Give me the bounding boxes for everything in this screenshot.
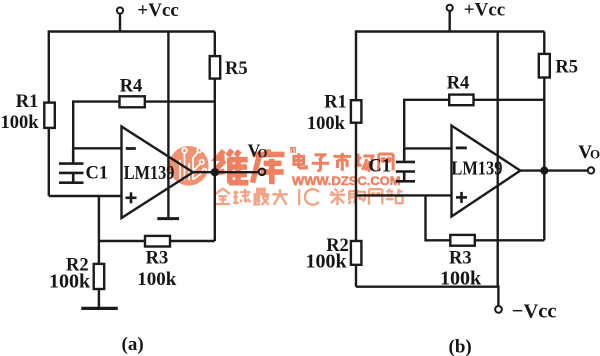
wire: op-amp supply vertical A [167, 32, 169, 218]
node output junction (b) [540, 167, 548, 175]
wire: R5 / output vertical B [543, 32, 545, 241]
logo circle [169, 146, 209, 186]
resistor R5 (b) [539, 54, 550, 78]
Vo terminal B [588, 167, 594, 173]
op-amp U2 triangle [452, 126, 521, 217]
svg-text:R1: R1 [16, 92, 39, 112]
wire: R4 wire B [404, 100, 544, 149]
svg-text:C1: C1 [368, 157, 391, 177]
svg-text:TM: TM [290, 146, 297, 155]
wire: inverting input wire A [73, 147, 121, 149]
svg-text:C1: C1 [86, 164, 109, 184]
resistor R5 (a) [210, 56, 221, 79]
svg-text:R5: R5 [555, 57, 578, 77]
resistor R3 (a) [145, 236, 170, 247]
svg-text:+Vcc: +Vcc [464, 0, 505, 20]
wire: R4 wire A [73, 102, 215, 149]
wire: R3 branch B [426, 195, 545, 240]
op-amp U1 plus [126, 192, 137, 203]
wire: + input wire B [356, 194, 452, 196]
svg-text:R1: R1 [324, 92, 347, 112]
op-amp U1 triangle [122, 127, 194, 219]
wire: bottom supply wire B [356, 287, 498, 306]
wire: output wire A [193, 171, 259, 173]
wire: bottom feedback wire A [99, 240, 215, 242]
resistor R4 (b) [449, 95, 473, 106]
svg-text:R3: R3 [146, 249, 169, 269]
Vo terminal A [259, 169, 266, 176]
resistor R3 (b) [450, 235, 475, 246]
svg-text:100k: 100k [306, 250, 348, 272]
+Vcc terminal B [447, 5, 453, 11]
svg-text:R4: R4 [120, 77, 143, 97]
wire: + input wire A [49, 195, 122, 197]
svg-text:100k: 100k [440, 268, 482, 290]
wire: +Vcc stub A [119, 14, 121, 32]
svg-text:100k: 100k [1, 113, 40, 133]
svg-text:+Vcc: +Vcc [137, 0, 178, 21]
svg-text:(a): (a) [122, 334, 144, 355]
svg-text:LM139: LM139 [124, 162, 175, 184]
wire: +Vcc stub B [449, 11, 451, 31]
+Vcc terminal A [117, 7, 123, 13]
resistor R1 (b) [351, 100, 362, 123]
capacitor C1 (b) [396, 148, 415, 181]
resistor R2 (a) [94, 264, 105, 289]
svg-text:R3: R3 [449, 248, 472, 268]
全球最大IC采购网站 row [216, 188, 403, 205]
电子市场网 row [294, 153, 393, 172]
wire: top rail A [49, 32, 215, 197]
svg-text:100k: 100k [137, 269, 177, 290]
wire: top rail B [356, 32, 544, 287]
svg-text:R5: R5 [225, 59, 248, 79]
big 维库 [215, 149, 285, 184]
resistor R2 (b) [351, 241, 362, 265]
op-amp U2 minus [456, 146, 467, 149]
svg-text:(b): (b) [449, 336, 472, 356]
svg-text:O: O [258, 146, 268, 160]
wire: inverting input wire B [404, 147, 451, 149]
ground (a) R2 ground [81, 307, 118, 310]
svg-text:R4: R4 [447, 74, 470, 94]
svg-text:100k: 100k [49, 271, 91, 293]
ground (a) op-amp V- pin [157, 217, 179, 220]
svg-text:O: O [590, 147, 600, 162]
svg-text:−Vcc: −Vcc [512, 301, 557, 323]
wire: R2 branch vertical A [98, 196, 100, 307]
svg-text:WWW.DZSC.COM: WWW.DZSC.COM [292, 176, 401, 188]
wire: R5 / output vertical A [214, 32, 216, 242]
svg-text:100k: 100k [307, 114, 346, 134]
op-amp U2 plus [456, 192, 467, 203]
wire: output wire B [520, 169, 588, 171]
capacitor C1 (a) [59, 148, 84, 182]
op-amp U1 minus [126, 147, 136, 150]
wire: supply vertical B [497, 32, 499, 287]
svg-text:LM139: LM139 [451, 158, 502, 180]
resistor R1 (a) [44, 103, 55, 128]
-Vcc terminal B [495, 306, 502, 313]
resistor R4 (a) [120, 96, 145, 107]
node output junction (a) [211, 168, 219, 176]
